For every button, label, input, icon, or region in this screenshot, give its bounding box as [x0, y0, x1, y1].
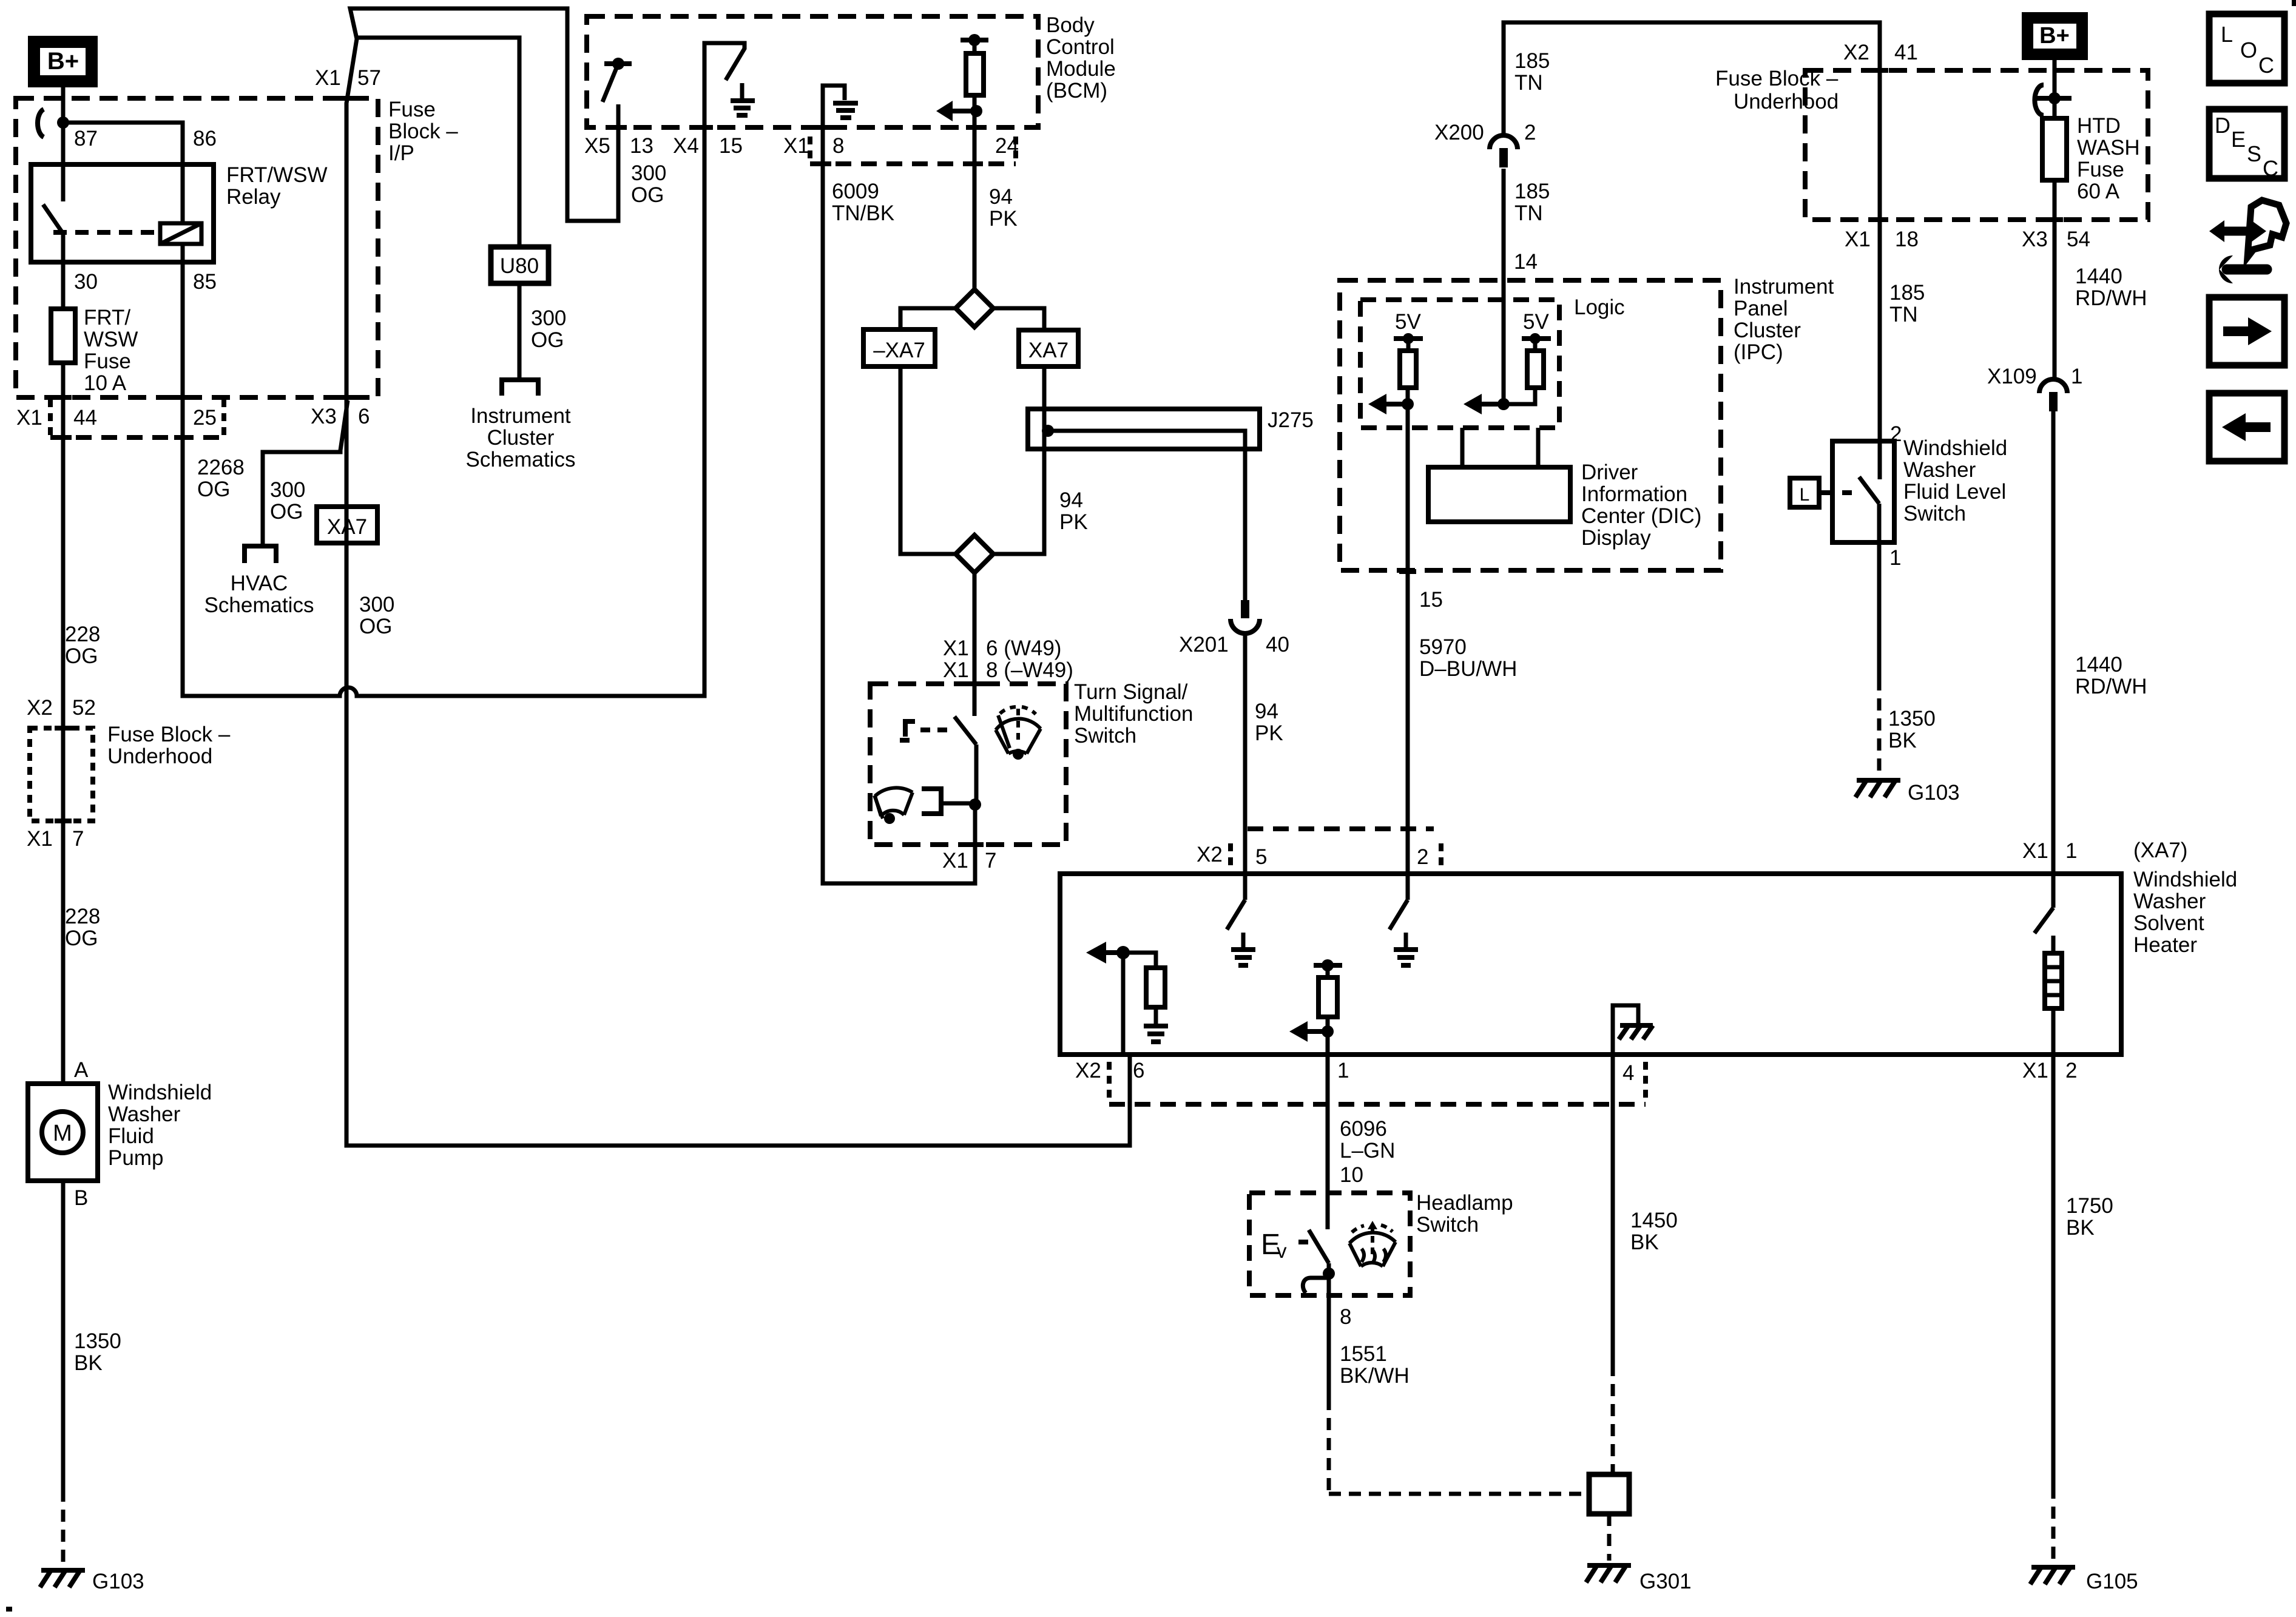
svg-text:6096: 6096 — [1340, 1117, 1387, 1141]
svg-text:BK: BK — [74, 1351, 103, 1375]
svg-text:I/P: I/P — [388, 141, 414, 165]
svg-text:Control: Control — [1046, 35, 1115, 59]
defroster indicator icon — [1349, 1224, 1396, 1266]
svg-text:Underhood: Underhood — [1734, 90, 1838, 113]
off-page bracket instrument cluster — [502, 380, 538, 396]
windshield washer fluid level switch box — [1832, 441, 1894, 542]
connector XA7 box (right) — [1019, 330, 1078, 366]
svg-text:TN: TN — [1514, 71, 1543, 95]
in-line connector X109 — [2039, 379, 2067, 393]
svg-text:X1: X1 — [16, 406, 42, 430]
svg-text:86: 86 — [193, 127, 217, 150]
wire relay 30 to fuse — [61, 262, 66, 309]
svg-text:5V: 5V — [1395, 310, 1421, 334]
splice block G301 junction — [1589, 1474, 1629, 1514]
svg-text:S: S — [2247, 141, 2261, 166]
connector strip X2 5/2 (top) — [1197, 829, 1441, 873]
svg-text:Windshield: Windshield — [2133, 868, 2237, 891]
svg-text:X1: X1 — [27, 827, 53, 851]
splice diamond upper — [956, 289, 993, 327]
battery feed B+ (right) — [2022, 12, 2088, 60]
svg-text:5V: 5V — [1523, 310, 1549, 334]
svg-text:228: 228 — [65, 905, 100, 928]
label Fuse Block - I/P — [388, 98, 458, 165]
svg-text:8 (–W49): 8 (–W49) — [986, 658, 1073, 682]
heater pin 6 feed node — [1086, 942, 1168, 1055]
BCM pins X5 13 labels — [584, 134, 653, 158]
svg-text:Washer: Washer — [2133, 890, 2206, 913]
fuse clip (right) — [2034, 85, 2044, 115]
svg-text:60 A: 60 A — [2077, 180, 2120, 203]
svg-text:B+: B+ — [2039, 23, 2070, 49]
5V pullup (right) — [1464, 310, 1551, 414]
svg-text:Underhood: Underhood — [107, 744, 212, 768]
svg-text:B+: B+ — [47, 48, 79, 75]
branch U80 — [357, 38, 519, 247]
svg-text:15: 15 — [719, 134, 743, 158]
svg-text:Center (DIC): Center (DIC) — [1581, 504, 1701, 528]
headlamp switch internals — [1261, 1193, 1335, 1295]
off-page bracket HVAC — [245, 546, 276, 563]
relay coil — [160, 223, 201, 244]
branch to -XA7 — [900, 308, 956, 329]
svg-text:Headlamp: Headlamp — [1416, 1191, 1513, 1215]
wire 1440 RD/WH fuse to X109 — [2053, 180, 2057, 379]
legend LOC box — [2209, 14, 2284, 83]
svg-text:Schematics: Schematics — [466, 448, 576, 471]
svg-text:G301: G301 — [1639, 1570, 1692, 1593]
relay FRT/WSW box — [31, 164, 214, 262]
svg-text:X2: X2 — [1197, 843, 1223, 866]
svg-text:Fuse: Fuse — [84, 349, 131, 373]
fuse block underhood pass-through dashed box — [30, 728, 93, 821]
wire fuse down left column — [61, 363, 66, 1084]
svg-text:15: 15 — [1419, 588, 1443, 612]
relay pin labels 87 86 — [74, 127, 217, 150]
BCM internal switch X5/13 — [603, 58, 632, 102]
headlamp switch dashed box — [1249, 1193, 1410, 1295]
tick X1/57 — [340, 96, 358, 101]
branch jog to HVAC — [263, 400, 348, 544]
svg-text:228: 228 — [65, 623, 100, 646]
svg-text:TN/BK: TN/BK — [832, 201, 894, 225]
ground G301 — [1586, 1565, 1692, 1593]
label 300 OG (U80) — [531, 306, 566, 352]
legend harness/wrench icon — [2209, 200, 2286, 283]
svg-text:Fuse Block –: Fuse Block – — [107, 723, 231, 746]
svg-text:1350: 1350 — [74, 1329, 121, 1353]
splice diamond lower — [956, 535, 993, 573]
svg-text:1350: 1350 — [1888, 707, 1936, 731]
5V pullup (left) — [1368, 310, 1423, 414]
svg-text:M: M — [53, 1121, 72, 1146]
svg-text:Instrument: Instrument — [470, 404, 571, 428]
svg-text:BK: BK — [1630, 1230, 1659, 1254]
page corner mark — [2292, 0, 2296, 6]
svg-text:C: C — [2263, 156, 2278, 181]
labels X1 7 — [942, 849, 996, 873]
svg-text:8: 8 — [1340, 1305, 1351, 1329]
svg-text:6: 6 — [1133, 1059, 1144, 1082]
svg-text:Block –: Block – — [388, 120, 458, 143]
switch lever — [1859, 477, 1879, 504]
wire 1551 BK/WH to G301 — [1327, 1295, 1331, 1398]
svg-text:Display: Display — [1581, 526, 1651, 550]
svg-text:Windshield: Windshield — [108, 1081, 212, 1104]
svg-text:185: 185 — [1514, 49, 1550, 73]
svg-text:PK: PK — [989, 207, 1018, 231]
label HVAC Schematics — [204, 572, 314, 617]
svg-text:X3: X3 — [2022, 228, 2048, 251]
legend forward arrow box — [2209, 297, 2284, 365]
level sensor square L — [1790, 478, 1819, 507]
svg-text:E: E — [2231, 127, 2246, 152]
svg-text:XA7: XA7 — [1028, 339, 1069, 362]
in-line connector X201 — [1231, 619, 1260, 633]
svg-text:FRT/WSW: FRT/WSW — [226, 163, 328, 187]
svg-text:TN: TN — [1889, 303, 1918, 326]
wire 300 OG main loop: BCM X5/13 - top - left column - heater X2/6 — [346, 8, 1130, 1146]
svg-text:Washer: Washer — [1903, 458, 1976, 482]
svg-text:OG: OG — [631, 183, 664, 207]
svg-text:300: 300 — [270, 478, 305, 502]
svg-text:X5: X5 — [584, 134, 610, 158]
svg-text:Washer: Washer — [108, 1102, 181, 1126]
svg-text:Cluster: Cluster — [487, 426, 555, 450]
svg-text:Fuse: Fuse — [388, 98, 436, 121]
ground G105 — [2030, 1567, 2138, 1593]
label 228 OG (lower) — [65, 905, 100, 950]
svg-text:Windshield: Windshield — [1903, 436, 2007, 460]
svg-text:X1: X1 — [942, 849, 968, 873]
svg-text:X201: X201 — [1179, 633, 1229, 657]
svg-text:G103: G103 — [1908, 781, 1960, 805]
label 2268 OG — [197, 456, 245, 501]
svg-text:C: C — [2258, 53, 2274, 78]
labels X1 18 — [1845, 228, 1919, 251]
driver information center DIC display — [1428, 428, 1701, 550]
svg-text:BK: BK — [1888, 729, 1917, 752]
svg-text:Fluid Level: Fluid Level — [1903, 480, 2006, 504]
svg-text:54: 54 — [2067, 228, 2090, 251]
svg-text:300: 300 — [631, 161, 666, 185]
ground G103 (left) — [40, 1570, 144, 1593]
svg-text:Module: Module — [1046, 57, 1116, 81]
svg-text:10 A: 10 A — [84, 371, 127, 395]
svg-text:300: 300 — [359, 593, 394, 616]
in-line connector X200 — [1490, 135, 1518, 149]
labels X2 41 — [1843, 41, 1918, 64]
svg-text:(XA7): (XA7) — [2133, 839, 2187, 862]
instrument panel cluster IPC dashed box — [1340, 280, 1721, 570]
wiper/washer icon (upper) — [996, 707, 1041, 754]
svg-text:X1: X1 — [783, 134, 809, 158]
connector X3 pin 6 labels and jog — [311, 405, 370, 428]
wire 185 TN top run — [1504, 22, 1880, 479]
svg-text:44: 44 — [73, 406, 97, 430]
svg-text:5: 5 — [1255, 845, 1267, 869]
svg-text:14: 14 — [1514, 250, 1538, 274]
fuse clip (left) — [38, 109, 44, 137]
heater element pin X1/1 — [2034, 874, 2062, 1055]
svg-text:94: 94 — [1255, 700, 1278, 723]
body control module BCM dashed box — [587, 16, 1038, 127]
svg-text:X200: X200 — [1434, 121, 1484, 144]
svg-text:1: 1 — [1337, 1059, 1349, 1082]
labels X3 54 — [2022, 228, 2090, 251]
svg-text:52: 52 — [72, 696, 96, 720]
connector strip X1 8/24 — [783, 127, 1019, 164]
svg-text:6009: 6009 — [832, 180, 879, 203]
svg-text:X4: X4 — [673, 134, 699, 158]
svg-text:2: 2 — [2065, 1059, 2077, 1082]
connector X1 pin 57 labels — [315, 66, 381, 90]
svg-text:X1: X1 — [1845, 228, 1871, 251]
svg-text:24: 24 — [995, 134, 1019, 158]
svg-text:WSW: WSW — [84, 328, 138, 351]
svg-text:Solvent: Solvent — [2133, 911, 2204, 935]
svg-text:Heater: Heater — [2133, 933, 2197, 957]
label 94 PK (left of J275 output) — [1059, 488, 1088, 534]
svg-text:A: A — [74, 1058, 89, 1082]
page dot — [6, 1607, 12, 1612]
fuse HTD WASH 60A — [2042, 118, 2067, 180]
windshield washer solvent heater box — [1060, 874, 2121, 1055]
svg-text:O: O — [2240, 38, 2257, 62]
svg-text:41: 41 — [1894, 41, 1918, 64]
splice pack J275 — [1028, 409, 1260, 449]
wire 6009 TN/BK BCM X1/8 to turn signal X1/7 — [823, 127, 975, 883]
wire 1440 RD/WH X109 to heater X1/1 — [2051, 411, 2056, 874]
mode stop bracket — [905, 721, 915, 737]
svg-text:300: 300 — [531, 306, 566, 330]
labels X1 6 (W49) / X1 8 (-W49) — [943, 636, 1073, 682]
wire 1450 BK heater 4 to G301 — [1611, 1055, 1615, 1364]
svg-text:OG: OG — [197, 478, 230, 501]
svg-text:87: 87 — [74, 127, 98, 150]
svg-text:2: 2 — [1524, 121, 1536, 144]
wire 6096 L-GN heater 1 to headlamp switch — [1326, 1055, 1330, 1193]
relay label — [226, 163, 328, 209]
wire 2268 OG relay 85 to BCM X4/15 — [183, 127, 704, 696]
wire 94 PK X201 to heater X2/5 — [1243, 633, 1248, 874]
wire B+ to relay pin 87 — [61, 87, 66, 164]
svg-text:X109: X109 — [1987, 365, 2037, 388]
svg-text:8: 8 — [832, 134, 844, 158]
connector -XA7 box — [863, 329, 935, 366]
label 228 OG (upper) — [65, 623, 100, 668]
svg-text:1440: 1440 — [2075, 265, 2122, 288]
svg-text:X1: X1 — [943, 636, 969, 660]
svg-text:Body: Body — [1046, 13, 1095, 37]
svg-text:OG: OG — [359, 615, 392, 638]
svg-text:25: 25 — [193, 406, 217, 430]
svg-text:94: 94 — [1059, 488, 1083, 512]
connector XA7 (left column) — [317, 507, 377, 543]
svg-text:TN: TN — [1514, 201, 1543, 225]
washer contact bracket — [922, 789, 941, 814]
svg-text:94: 94 — [989, 185, 1013, 209]
svg-text:J275: J275 — [1268, 408, 1314, 432]
svg-text:Switch: Switch — [1903, 502, 1966, 525]
svg-text:(BCM): (BCM) — [1046, 79, 1107, 103]
svg-text:Fluid: Fluid — [108, 1124, 154, 1148]
logic dashed box — [1360, 300, 1559, 428]
svg-text:v: v — [1277, 1240, 1287, 1262]
svg-text:L: L — [2221, 22, 2233, 47]
svg-text:7: 7 — [72, 827, 84, 851]
svg-text:Driver: Driver — [1581, 461, 1638, 484]
svg-text:Schematics: Schematics — [204, 593, 314, 617]
svg-text:X3: X3 — [311, 405, 337, 428]
svg-text:RD/WH: RD/WH — [2075, 675, 2147, 698]
svg-text:B: B — [74, 1186, 88, 1210]
svg-text:OG: OG — [270, 500, 303, 524]
legend DESC box — [2209, 109, 2284, 181]
svg-text:X2: X2 — [27, 696, 53, 720]
svg-text:G103: G103 — [92, 1570, 144, 1593]
battery feed B+ (left) — [28, 36, 98, 87]
svg-text:Switch: Switch — [1416, 1213, 1479, 1237]
svg-text:1450: 1450 — [1630, 1209, 1678, 1232]
heater pin 4 chassis ground — [1613, 1005, 1653, 1055]
BCM internal ground X1/8 — [823, 86, 858, 127]
svg-text:6: 6 — [358, 405, 370, 428]
svg-text:7: 7 — [985, 849, 996, 873]
fuse block underhood dashed box (right) — [1805, 70, 2148, 220]
svg-text:HVAC: HVAC — [231, 572, 288, 595]
svg-text:1: 1 — [2065, 839, 2077, 863]
wire 1350 BK pump to G103 — [61, 1181, 66, 1490]
label 300 OG (below XA7) — [359, 593, 394, 638]
svg-text:1551: 1551 — [1340, 1342, 1387, 1366]
svg-text:D–BU/WH: D–BU/WH — [1419, 657, 1517, 681]
svg-text:10: 10 — [1340, 1163, 1363, 1187]
wire -XA7 to lower splice — [900, 366, 956, 554]
heater pin 5 ground switch — [1227, 874, 1255, 965]
junction node on B+ wire — [57, 116, 69, 129]
svg-text:1: 1 — [1889, 546, 1901, 570]
svg-text:PK: PK — [1255, 721, 1283, 745]
svg-text:Information: Information — [1581, 482, 1687, 506]
svg-text:Logic: Logic — [1574, 295, 1625, 319]
fuse FRT/WSW 10A — [51, 309, 75, 363]
connector U80 box — [491, 247, 549, 283]
svg-text:OG: OG — [531, 328, 564, 352]
BCM internal ground switch X4/15 — [704, 43, 755, 127]
wire splice to turn signal switch — [973, 573, 977, 716]
svg-text:L–GN: L–GN — [1340, 1139, 1395, 1163]
relay switch contact — [61, 164, 66, 201]
svg-text:BK: BK — [2066, 1216, 2095, 1240]
wire 1750 BK heater X1/2 to G105 — [2051, 1055, 2056, 1487]
svg-text:RD/WH: RD/WH — [2075, 286, 2147, 310]
svg-text:WASH: WASH — [2077, 136, 2140, 160]
labels X1 1 (heater right top) — [2022, 839, 2077, 863]
svg-text:Instrument: Instrument — [1734, 275, 1834, 299]
svg-text:5970: 5970 — [1419, 635, 1467, 659]
relay actuator dashed link — [53, 230, 160, 235]
wire XA7 into J275 and to lower splice — [993, 366, 1044, 554]
svg-text:PK: PK — [1059, 510, 1088, 534]
wire 94 PK BCM X1/24 to splice — [973, 111, 977, 289]
svg-text:X1: X1 — [2022, 1059, 2048, 1082]
svg-text:185: 185 — [1889, 281, 1925, 305]
svg-text:BK/WH: BK/WH — [1340, 1364, 1410, 1388]
BCM internal resistor X1/24 — [936, 34, 988, 121]
connector X2/52 X1/7 labels — [27, 696, 96, 720]
label 300 OG (HVAC branch) — [270, 478, 305, 524]
svg-text:Fuse Block –: Fuse Block – — [1715, 67, 1838, 90]
svg-text:OG: OG — [65, 644, 98, 668]
svg-text:X1: X1 — [2022, 839, 2048, 863]
svg-text:–XA7: –XA7 — [873, 339, 925, 362]
label 300 OG (X5/13) — [631, 161, 666, 207]
svg-text:Turn Signal/: Turn Signal/ — [1074, 680, 1188, 704]
svg-text:85: 85 — [193, 270, 217, 294]
fuse block I/P dashed box — [16, 98, 378, 397]
legend back arrow box — [2209, 393, 2284, 461]
svg-text:Relay: Relay — [226, 185, 281, 209]
svg-text:13: 13 — [630, 134, 653, 158]
svg-text:57: 57 — [357, 66, 381, 90]
labels X1 2 (heater right bottom) — [2022, 1059, 2077, 1082]
wiper icon (lower left) — [874, 788, 913, 819]
svg-text:185: 185 — [1514, 180, 1550, 203]
svg-text:4: 4 — [1622, 1061, 1634, 1085]
svg-text:U80: U80 — [500, 254, 539, 278]
heater pin 2 ground switch — [1389, 874, 1418, 965]
connector X1 44/25 strip — [16, 397, 224, 437]
wire junction to relay coil pin 86 — [63, 123, 183, 164]
svg-text:X2: X2 — [1843, 41, 1869, 64]
wire U80 down — [518, 283, 522, 379]
turn signal / multifunction switch dashed box — [870, 684, 1066, 845]
ground G103 (right) — [1855, 780, 1960, 805]
wire B+ to HTD WASH fuse — [2053, 60, 2057, 118]
svg-text:Pump: Pump — [108, 1146, 163, 1170]
wire 5970 D-BU/WH IPC 15 to heater 2 — [1406, 404, 1410, 874]
svg-text:FRT/: FRT/ — [84, 306, 130, 329]
switch lever (wiper mode) — [954, 717, 976, 744]
svg-text:Panel: Panel — [1734, 297, 1788, 320]
labels 185 TN upper/lower — [1514, 49, 1550, 95]
svg-text:2: 2 — [1417, 845, 1428, 869]
svg-text:Multifunction: Multifunction — [1074, 702, 1193, 726]
svg-text:HTD: HTD — [2077, 114, 2121, 138]
windshield washer fluid pump — [28, 1058, 212, 1210]
svg-text:OG: OG — [65, 927, 98, 950]
svg-text:XA7: XA7 — [327, 515, 367, 539]
svg-text:Switch: Switch — [1074, 724, 1136, 748]
svg-text:X2: X2 — [1075, 1059, 1101, 1082]
svg-text:1750: 1750 — [2066, 1194, 2113, 1218]
actuator dashes — [920, 727, 954, 732]
svg-text:1: 1 — [2071, 365, 2082, 388]
svg-text:D: D — [2215, 113, 2230, 138]
svg-text:40: 40 — [1266, 633, 1289, 657]
branch to XA7 — [993, 308, 1044, 330]
heater pin 1 control node — [1289, 959, 1342, 1055]
svg-text:Fuse: Fuse — [2077, 158, 2124, 181]
svg-text:Cluster: Cluster — [1734, 319, 1801, 342]
svg-text:30: 30 — [74, 270, 98, 294]
svg-text:2268: 2268 — [197, 456, 245, 479]
svg-text:X1: X1 — [315, 66, 341, 90]
svg-text:18: 18 — [1895, 228, 1919, 251]
svg-text:G105: G105 — [2086, 1570, 2138, 1593]
svg-text:(IPC): (IPC) — [1734, 340, 1783, 364]
